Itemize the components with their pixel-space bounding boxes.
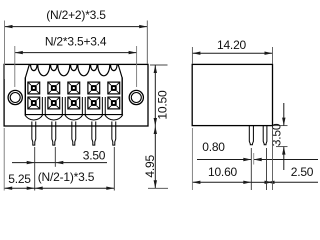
front view: solder pin 5 bbox=[112, 122, 116, 146]
dimension 14.20 side width bbox=[192, 52, 272, 54]
svg-text:(N/2+2)*3.5: (N/2+2)*3.5 bbox=[46, 8, 106, 22]
svg-text:3.50: 3.50 bbox=[83, 148, 106, 162]
svg-text:5.25: 5.25 bbox=[8, 172, 31, 186]
dimension 3.50 side pin length bbox=[273, 125, 288, 127]
front view: solder pin 2 bbox=[52, 122, 56, 146]
front view: right flange screw hole bbox=[129, 90, 143, 104]
front view: contact square bottom row col2 bbox=[48, 97, 60, 109]
svg-text:N/2*3.5+3.4: N/2*3.5+3.4 bbox=[45, 35, 107, 49]
dimension (N/2-1)*3.5 pin span bbox=[35, 187, 115, 189]
front view: contact square bottom row col4 bbox=[88, 97, 100, 109]
svg-text:14.20: 14.20 bbox=[217, 38, 247, 52]
front view: housing bottom edge with scallops bbox=[25, 114, 123, 116]
front view: left housing wall bbox=[24, 78, 26, 115]
svg-text:3.50: 3.50 bbox=[269, 123, 283, 146]
front view: solder pin 1 bbox=[32, 122, 36, 146]
front view: contact square top row col3 bbox=[68, 82, 80, 94]
dimension 0.80 pin thickness bbox=[197, 159, 251, 161]
front view: solder pin 4 bbox=[92, 122, 96, 146]
side view: front pin bbox=[249, 126, 253, 145]
front view: contact square bottom row col3 bbox=[68, 97, 80, 109]
dimension 10.50 body height bbox=[150, 64, 168, 66]
dimension line segment between pin extensions bbox=[251, 181, 266, 183]
front view: solder pin 3 bbox=[72, 122, 76, 146]
front view: inter-pole slots bbox=[41, 97, 43, 115]
dimension N/2*3.5+3.4 bbox=[15, 52, 137, 54]
front view: contact square top row col4 bbox=[88, 82, 100, 94]
front view: outer body rectangle bbox=[4, 64, 148, 126]
dimension 3.50 front pin pitch bbox=[12, 162, 107, 164]
svg-text:10.50: 10.50 bbox=[155, 90, 169, 120]
dimension 2.50 pin to body edge bbox=[267, 181, 273, 183]
front view: contact square top row col5 bbox=[108, 82, 120, 94]
front view: contact square top row col2 bbox=[48, 82, 60, 94]
side view: rear pin bbox=[263, 126, 267, 145]
svg-text:4.95: 4.95 bbox=[143, 155, 157, 178]
dimension (N/2+2)*3.5 top overall width bbox=[5, 26, 148, 28]
front view: contact square top row col1 bbox=[28, 82, 40, 94]
svg-text:2.50: 2.50 bbox=[291, 165, 314, 179]
front view: top scalloped wire-entry contour bbox=[25, 65, 122, 78]
svg-text:10.60: 10.60 bbox=[208, 165, 238, 179]
front view: left flange screw hole bbox=[8, 90, 22, 104]
front view: contact square bottom row col5 bbox=[108, 97, 120, 109]
dimension 10.60 body edge to pin bbox=[192, 181, 251, 183]
side view: body rectangle bbox=[192, 64, 272, 125]
front view: contact square bottom row col1 bbox=[28, 97, 40, 109]
dimension 5.25 edge to first pin bbox=[4, 187, 35, 189]
front view: right housing wall bbox=[121, 78, 123, 115]
svg-text:(N/2-1)*3.5: (N/2-1)*3.5 bbox=[38, 170, 95, 184]
dimension 4.95 pin region height bbox=[154, 126, 156, 188]
svg-text:0.80: 0.80 bbox=[202, 140, 225, 154]
